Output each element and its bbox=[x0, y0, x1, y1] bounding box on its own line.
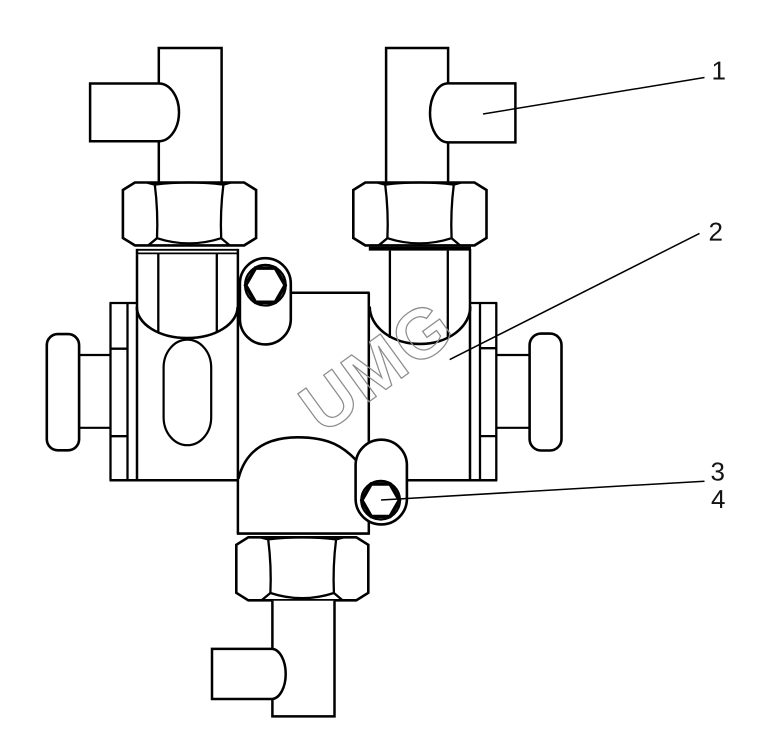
fitting F1 (top-left banjo fitting) bbox=[90, 84, 179, 142]
fitting F2 (top-right banjo fitting) bbox=[430, 83, 515, 142]
bolt B2 capsule (bottom-right, items 3/4) bbox=[356, 440, 407, 525]
body right edge bbox=[469, 249, 472, 480]
nut N2 (right union nut) bbox=[353, 183, 486, 246]
body bottom edge right segment bbox=[369, 479, 498, 482]
nut N3 (bottom union nut) bbox=[236, 537, 368, 600]
capsule in left cup bbox=[164, 340, 212, 446]
cup right (threaded sleeve in body, under right nut) bbox=[369, 249, 471, 344]
body top edge bbox=[238, 291, 370, 294]
dome (bottom outlet boss) bbox=[238, 437, 356, 479]
bolt B2 hex head bbox=[362, 484, 400, 517]
leader line 2 bbox=[450, 233, 700, 359]
body left flange bbox=[110, 303, 138, 480]
label 1 bbox=[713, 62, 724, 80]
body right flange bbox=[470, 303, 497, 480]
plug left cap bbox=[47, 334, 79, 450]
pipe P2 (top-right vertical pipe) bbox=[386, 48, 448, 185]
body left edge bbox=[136, 249, 139, 480]
bolt B2 ring bbox=[361, 481, 400, 520]
plug left neck bbox=[80, 355, 111, 428]
label 4 bbox=[712, 490, 725, 508]
body bottom edge left segment bbox=[110, 479, 239, 482]
label 2 bbox=[710, 222, 722, 240]
body divider left-center bbox=[237, 249, 240, 534]
plug right neck bbox=[496, 355, 529, 428]
pipe P3 (bottom vertical pipe) bbox=[272, 601, 334, 717]
fitting F3 (bottom-left banjo fitting) bbox=[212, 649, 286, 699]
bolt B1 ring bbox=[245, 265, 286, 306]
leader line 3-4 bbox=[381, 481, 705, 500]
leader line 1 bbox=[483, 78, 705, 115]
plug right cap bbox=[530, 334, 562, 451]
cup left (threaded sleeve in body, under left nut) bbox=[137, 250, 238, 338]
nut N1 (left union nut) bbox=[123, 183, 256, 246]
center block bottom edge bbox=[237, 532, 370, 535]
bolt B1 capsule (top-center) bbox=[240, 258, 291, 344]
bolt B1 hex head bbox=[246, 268, 286, 302]
label 3 bbox=[711, 462, 723, 480]
body divider center-right bbox=[368, 293, 371, 534]
pipe P1 (top-left vertical pipe) bbox=[159, 48, 222, 185]
